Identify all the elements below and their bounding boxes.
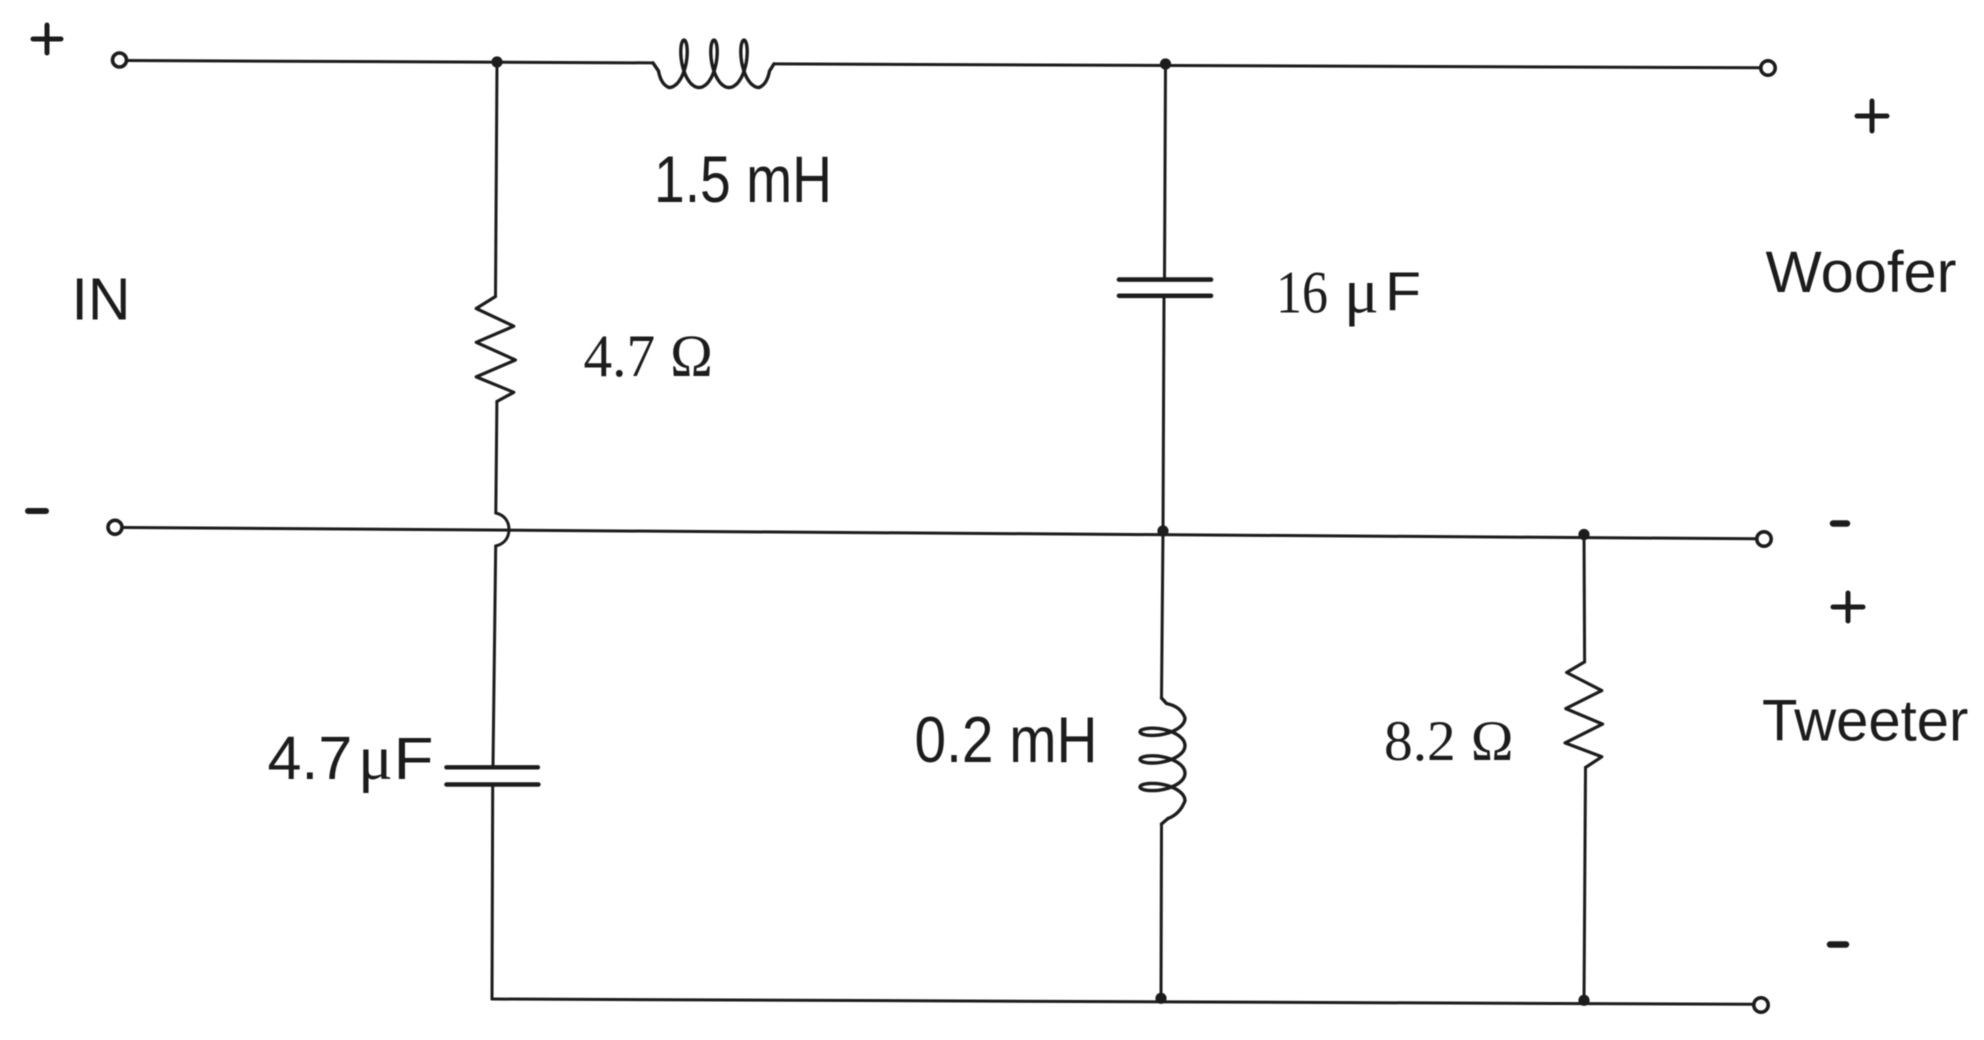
wire: top rail left segment (IN+ to inductor L1) — [127, 61, 654, 63]
terminal Tweeter- open circle — [1754, 998, 1768, 1012]
svg-text:4.7 Ω: 4.7 Ω — [584, 323, 714, 389]
svg-text:Tweeter: Tweeter — [1762, 689, 1968, 754]
polarity + (IN plus) — [33, 25, 61, 53]
wire: capacitor C1 bottom plate down to middle rail — [1163, 298, 1164, 531]
svg-text:8.2 Ω: 8.2 Ω — [1384, 710, 1514, 773]
node F junction dot (bottom rail / 8.2 ohm bottom) — [1578, 995, 1589, 1006]
wire: top rail right segment (inductor L1 to Woofer+) — [774, 64, 1760, 68]
polarity - (Woofer minus) — [1833, 520, 1847, 527]
node C junction dot (middle rail / 16uF / 0.2mH) — [1157, 525, 1168, 536]
inductor L2 0.2 mH — [1140, 698, 1185, 824]
value label 8.2 ohm — [1384, 710, 1514, 773]
label Woofer — [1766, 240, 1957, 305]
capacitor C2 4.7 uF bottom plate — [446, 782, 538, 786]
wire: hop down to capacitor C2 top plate — [493, 546, 496, 766]
svg-text:0.2 mH: 0.2 mH — [915, 703, 1098, 776]
node D junction dot (middle rail / 8.2 ohm top) — [1578, 529, 1589, 540]
polarity + (Tweeter plus) — [1833, 593, 1863, 621]
wire: node C down to inductor L2 — [1162, 531, 1164, 698]
terminal Woofer+ open circle — [1761, 61, 1775, 75]
resistor R2 8.2 ohm zigzag — [1565, 662, 1603, 768]
wire hop (no-connect crossover) over middle rail — [496, 513, 509, 546]
label IN — [72, 266, 131, 332]
value label 1.5 mH — [654, 142, 832, 216]
terminal Woofer- / Tweeter+ open circle — [1757, 532, 1771, 546]
svg-text:4.7μF: 4.7μF — [268, 722, 434, 794]
capacitor C1 16 uF bottom plate — [1119, 293, 1211, 298]
wire: node A down to resistor R1 — [496, 62, 498, 297]
svg-text:IN: IN — [72, 266, 131, 332]
wire: bottom rail — [492, 999, 1753, 1004]
polarity - (Tweeter minus) — [1830, 941, 1846, 948]
wire: node B down to capacitor C1 top plate — [1165, 64, 1166, 277]
svg-text:1.5 mH: 1.5 mH — [654, 142, 832, 216]
wire: resistor R1 bottom down to hop — [496, 402, 497, 514]
wire: inductor L2 bottom to bottom rail — [1160, 824, 1164, 998]
svg-text:16μF: 16μF — [1276, 256, 1421, 328]
wire: capacitor C2 down to bottom rail corner — [491, 787, 495, 999]
wire: middle rail — [122, 528, 1757, 539]
polarity + (Woofer plus) — [1857, 101, 1887, 131]
value label 16 uF — [1276, 256, 1421, 328]
polarity - (IN minus) — [28, 508, 46, 514]
svg-text:Woofer: Woofer — [1766, 240, 1957, 305]
wire: node D down to resistor R2 — [1583, 535, 1587, 662]
capacitor C2 4.7 uF top plate — [446, 765, 538, 769]
capacitor C1 16 uF top plate — [1119, 277, 1211, 282]
value label 4.7 uF — [268, 722, 434, 794]
value label 4.7 ohm — [584, 323, 714, 389]
terminal IN+ open circle — [113, 53, 127, 67]
label Tweeter — [1762, 689, 1968, 754]
terminal IN- open circle — [108, 520, 122, 534]
node B junction dot (top of 16 uF branch) — [1160, 58, 1171, 69]
resistor R1 4.7 ohm zigzag — [476, 297, 515, 402]
inductor L1 1.5 mH — [653, 40, 774, 88]
value label 0.2 mH — [915, 703, 1098, 776]
node E junction dot (bottom rail / L2) — [1155, 993, 1166, 1004]
node A junction dot (top of 4.7 ohm branch) — [491, 56, 502, 67]
wire: resistor R2 bottom to bottom rail — [1584, 768, 1586, 1001]
